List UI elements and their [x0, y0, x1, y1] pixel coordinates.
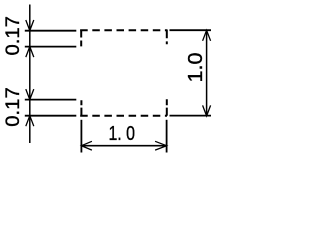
right extension line top (y=30.2)	[170, 29, 212, 31]
package outline top edge (dashed)	[80, 29, 167, 31]
package outline left edge lower terminal dashes	[80, 100, 82, 116]
arrowhead up at right dim top (tip 206.6,30.3)	[203, 30, 211, 41]
bottom extension line left (x=81.4)	[80, 120, 82, 153]
arrowhead up at bottom-left dim (tip 29.8,115.7)	[26, 116, 34, 127]
arrowhead up at top-left inner dim (tip 29.8,46.6)	[26, 47, 34, 58]
left extension line top inner (y=46.6)	[25, 46, 77, 48]
arrowhead down at bottom-left dim (tip 29.8,99.6)	[26, 89, 34, 100]
package outline right edge lower terminal dashes	[166, 99, 168, 116]
arrowhead left at bottom dim (tip 81.4,145.7)	[81, 141, 92, 150]
left vertical dimension line	[29, 5, 31, 144]
arrowhead right at bottom dim (tip 166.6,145.7)	[155, 141, 167, 150]
package outline left edge upper terminal dashes	[80, 30, 82, 47]
svg-text:1.0: 1.0	[185, 53, 207, 83]
left extension line top outer (y=30.7)	[25, 30, 77, 32]
svg-text:0.17: 0.17	[3, 16, 24, 56]
package outline right edge upper terminal dashes	[166, 30, 168, 45]
arrowhead down at top-left dim (tip 29.8,30.5)	[26, 20, 34, 31]
svg-text:0.17: 0.17	[3, 87, 24, 127]
bottom horizontal dimension line	[81, 145, 166, 147]
arrowhead down at right dim bottom (tip 206.6,115.9)	[203, 105, 211, 116]
right extension line bottom (y=115.6)	[170, 115, 212, 117]
left extension line bottom outer (y=115.7)	[25, 115, 77, 117]
right vertical dimension line	[206, 30, 208, 116]
svg-text:1. 0: 1. 0	[108, 123, 135, 145]
left extension line bottom inner (y=99.6)	[25, 99, 77, 101]
package outline bottom edge (dashed)	[80, 115, 167, 117]
bottom extension line right (x=166.6)	[166, 120, 168, 153]
